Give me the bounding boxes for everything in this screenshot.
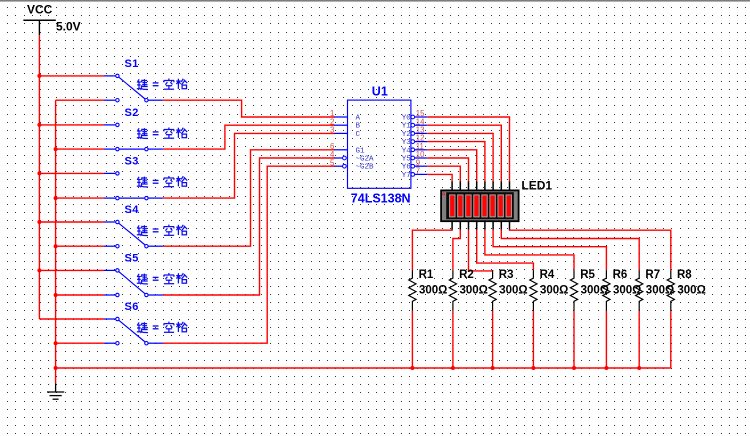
wire LED pin 5 to R5 <box>485 230 574 270</box>
wire VCC bus to S3 top throw <box>39 172 104 174</box>
junction on VCC bus at S4 <box>37 220 41 224</box>
U1 right pin 7 (Y7) <box>411 173 427 177</box>
wire LED pin 2 to R2 <box>453 230 460 270</box>
svg-text:R5: R5 <box>580 269 595 281</box>
U1 right pin 10 (Y5) <box>411 156 427 160</box>
wire S4 common to U1 <box>163 150 335 246</box>
svg-text:R6: R6 <box>613 269 628 281</box>
svg-text:R4: R4 <box>540 269 555 281</box>
switch S2 <box>104 123 163 151</box>
LED bottom pin 5 <box>484 221 486 230</box>
wire S3 common to U1 <box>163 133 335 198</box>
svg-text:5.0V: 5.0V <box>56 19 81 33</box>
wire S1 common to U1 <box>163 100 335 117</box>
svg-text:R1: R1 <box>419 269 434 281</box>
LED bottom pin 8 <box>509 221 511 230</box>
svg-text:R7: R7 <box>645 269 660 281</box>
junction bottom bus to ground bus <box>54 366 58 370</box>
LED bottom pin 2 <box>459 221 461 230</box>
svg-text:A: A <box>356 115 361 123</box>
wire Y6 to LED pin <box>427 166 460 181</box>
wire R1 to ground bus <box>411 311 413 368</box>
LED bar 3 <box>466 195 471 217</box>
junction R7 on ground bus <box>637 366 641 370</box>
svg-text:300Ω: 300Ω <box>540 284 568 296</box>
junction R2 on ground bus <box>451 366 455 370</box>
switch S3 <box>104 172 163 200</box>
switch S5 <box>104 269 163 297</box>
LED bottom pin 7 <box>500 221 502 230</box>
resistor R8 <box>667 270 674 311</box>
svg-text:R8: R8 <box>677 269 692 281</box>
U1 left pin 5 (~G2B) <box>334 164 346 168</box>
LED1 bar graph body <box>441 190 518 221</box>
resistor R1 <box>409 270 416 311</box>
svg-text:300Ω: 300Ω <box>677 284 705 296</box>
svg-text:Y3: Y3 <box>402 139 412 147</box>
wire LED pin 4 to R4 <box>477 230 534 270</box>
wire bottom bus to S3 bottom throw <box>56 197 104 199</box>
label key-equals-space for S6 <box>137 322 187 333</box>
junction R5 on ground bus <box>572 366 576 370</box>
wire VCC bus to S2 top throw <box>39 124 104 126</box>
wire S5 common to U1 <box>163 158 335 295</box>
power VCC symbol <box>23 20 55 35</box>
LED bar 4 <box>474 195 479 217</box>
resistor R5 <box>570 270 577 311</box>
wire bottom bus to S4 bottom throw <box>56 245 104 247</box>
junction R6 on ground bus <box>604 366 608 370</box>
U1 right pin 12 (Y3) <box>411 140 427 144</box>
junction on VCC bus at S3 <box>37 171 41 175</box>
U1 right pin 13 (Y2) <box>411 132 427 136</box>
U1 right pin 15 (Y0) <box>411 115 427 119</box>
svg-text:~G2A: ~G2A <box>356 156 375 164</box>
U1 right pin 9 (Y6) <box>411 164 427 168</box>
wire VCC bus vertical <box>38 35 40 319</box>
wire LED pin 3 to R3 <box>469 230 493 271</box>
svg-text:Y4: Y4 <box>402 147 412 155</box>
svg-text:3: 3 <box>330 126 334 135</box>
wire bottom bus to S2 bottom throw <box>56 148 104 150</box>
junction R4 on ground bus <box>531 366 535 370</box>
wire bottom bus to S5 bottom throw <box>56 294 104 296</box>
wire LED pin 8 to R8 <box>510 230 671 270</box>
LED bottom pin 1 <box>451 221 453 230</box>
svg-text:VCC: VCC <box>27 3 53 17</box>
resistor R2 <box>449 270 456 311</box>
svg-text:R3: R3 <box>499 269 514 281</box>
svg-text:S4: S4 <box>125 204 140 216</box>
svg-text:A: A <box>442 192 446 198</box>
junction on bottom bus at S2 <box>54 147 58 151</box>
wire LED pin 1 to R1 <box>412 230 452 270</box>
svg-text:C: C <box>356 131 361 139</box>
LED bottom pin 4 <box>476 221 478 230</box>
wire bottom-throw bus vertical <box>55 100 57 383</box>
LED top pin 6 <box>492 181 494 190</box>
junction on bottom bus at S6 <box>54 341 58 345</box>
U1 left pin 1 (A) <box>334 116 347 118</box>
wire Y0 to LED pin <box>427 117 509 181</box>
svg-text:LED1: LED1 <box>521 179 552 193</box>
label key-equals-space for S1 <box>137 79 187 90</box>
LED top pin 8 <box>509 181 511 190</box>
wire S2 common to U1 <box>163 125 335 149</box>
ground symbol <box>47 383 64 399</box>
svg-text:Y0: Y0 <box>402 115 412 123</box>
svg-text:S6: S6 <box>125 301 139 313</box>
wire bottom bus to S1 bottom throw <box>56 99 104 101</box>
svg-text:G1: G1 <box>356 147 366 155</box>
svg-text:300Ω: 300Ω <box>499 284 527 296</box>
LED bottom pin 3 <box>468 221 470 230</box>
svg-text:300Ω: 300Ω <box>460 284 488 296</box>
junction on VCC bus at S2 <box>37 123 41 127</box>
svg-text:R2: R2 <box>459 269 474 281</box>
resistor R7 <box>636 270 643 311</box>
wire ground bus horizontal <box>56 367 671 369</box>
junction on bottom bus at S4 <box>54 244 58 248</box>
svg-text:Y6: Y6 <box>402 164 412 172</box>
LED top pin 5 <box>484 181 486 190</box>
LED bottom pin 6 <box>492 221 494 230</box>
LED bar 7 <box>498 195 503 217</box>
svg-text:U1: U1 <box>372 84 388 98</box>
wire bottom bus to S6 bottom throw <box>56 342 104 344</box>
wire LED pin 6 to R6 <box>493 230 606 270</box>
LED bar 6 <box>490 195 495 217</box>
wire VCC bus to S4 top throw <box>39 221 104 223</box>
LED top pin 4 <box>476 181 478 190</box>
op-amp U1 74LS138N decoder box <box>348 100 411 188</box>
wire R7 to ground bus <box>638 311 640 368</box>
wire R5 to ground bus <box>573 311 575 368</box>
wire S6 common to U1 <box>163 166 335 343</box>
U1 right pin 11 (Y4) <box>411 148 427 152</box>
wire Y7 to LED pin <box>427 174 452 181</box>
junction R3 on ground bus <box>491 366 495 370</box>
U1 right pin 14 (Y1) <box>411 123 427 127</box>
svg-text:7: 7 <box>416 167 420 176</box>
switch S6 <box>104 317 163 345</box>
svg-text:5: 5 <box>330 158 335 167</box>
U1 left pin 3 (C) <box>334 132 347 134</box>
wire Y3 to LED pin <box>427 142 485 182</box>
svg-text:74LS138N: 74LS138N <box>351 192 411 206</box>
LED top pin 3 <box>468 181 470 190</box>
svg-text:S3: S3 <box>125 155 139 167</box>
U1 left pin 6 (G1) <box>334 149 347 151</box>
wire VCC bus to S1 top throw <box>39 75 104 77</box>
junction on VCC bus at S5 <box>37 268 41 272</box>
LED bar 5 <box>482 195 487 217</box>
junction on bottom bus at S5 <box>54 293 58 297</box>
label key-equals-space for S3 <box>137 176 187 187</box>
wire Y1 to LED pin <box>427 125 501 181</box>
junction R1 on ground bus <box>410 366 414 370</box>
switch S1 <box>104 74 163 102</box>
junction on VCC bus at S1 <box>37 74 41 78</box>
wire R2 to ground bus <box>452 311 454 368</box>
wire R3 to ground bus <box>492 311 494 368</box>
wire VCC bus to S5 top throw <box>39 269 104 271</box>
LED top pin 1 <box>451 181 453 190</box>
wire LED pin 7 to R7 <box>501 230 639 270</box>
svg-text:S1: S1 <box>125 58 139 70</box>
resistor R6 <box>603 270 610 311</box>
svg-text:300Ω: 300Ω <box>419 284 447 296</box>
svg-text:S5: S5 <box>125 252 139 264</box>
label key-equals-space for S4 <box>137 225 187 236</box>
svg-text:Y5: Y5 <box>402 156 412 164</box>
wire Y4 to LED pin <box>427 150 476 181</box>
U1 left pin 2 (B) <box>334 124 347 126</box>
svg-text:~G2B: ~G2B <box>356 164 375 172</box>
LED top pin 7 <box>500 181 502 190</box>
svg-text:B: B <box>356 123 361 131</box>
wire Y5 to LED pin <box>427 158 468 181</box>
resistor R3 <box>489 270 496 311</box>
wire Y2 to LED pin <box>427 133 493 181</box>
LED top pin 2 <box>459 181 461 190</box>
junction on bottom bus at S3 <box>54 196 58 200</box>
wire VCC bus to S6 top throw <box>39 318 104 320</box>
wire R4 to ground bus <box>532 311 534 368</box>
wire R8 to ground bus <box>670 311 672 368</box>
label key-equals-space for S2 <box>137 128 187 139</box>
switch S4 <box>104 220 163 248</box>
label key-equals-space for S5 <box>137 273 187 284</box>
svg-text:S2: S2 <box>125 107 139 119</box>
LED bar 2 <box>458 195 463 217</box>
wire R6 to ground bus <box>605 311 607 368</box>
svg-text:Y7: Y7 <box>402 172 411 180</box>
LED bar 1 <box>450 195 455 217</box>
LED bar 8 <box>506 195 511 217</box>
svg-text:Y2: Y2 <box>402 131 411 139</box>
resistor R4 <box>530 270 537 311</box>
svg-text:Y1: Y1 <box>402 123 412 131</box>
U1 left pin 4 (~G2A) <box>334 156 346 160</box>
